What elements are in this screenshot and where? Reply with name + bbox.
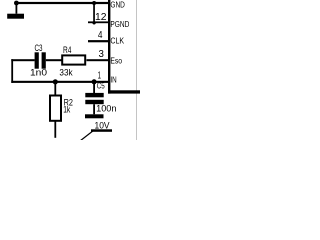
svg-text:3: 3	[99, 49, 105, 60]
svg-text:33k: 33k	[59, 67, 72, 78]
wire PGND pin	[88, 21, 108, 23]
svg-text:1k: 1k	[63, 105, 70, 116]
svg-text:4: 4	[98, 30, 103, 41]
svg-text:12: 12	[95, 12, 107, 23]
frame line	[136, 0, 138, 140]
wire CLK pin	[88, 40, 108, 42]
wire Eso pin	[87, 59, 109, 61]
svg-text:C5: C5	[97, 81, 105, 91]
svg-text:10V: 10V	[95, 120, 111, 131]
wire C3 left	[11, 59, 34, 61]
resistor R2	[50, 82, 61, 138]
node D	[92, 79, 97, 84]
node B	[92, 21, 95, 24]
svg-text:C3: C3	[35, 43, 43, 53]
svg-text:PGND: PGND	[110, 20, 129, 29]
svg-text:100n: 100n	[96, 103, 116, 114]
wire GND	[16, 2, 108, 4]
svg-text:GND: GND	[110, 0, 125, 9]
wire IN rail	[11, 81, 108, 83]
svg-text:Eso: Eso	[110, 56, 122, 65]
svg-text:1n0: 1n0	[30, 67, 47, 78]
resistor R4	[62, 55, 85, 64]
IC U1 box edge	[108, 0, 140, 94]
ground	[7, 1, 24, 19]
capacitor C3	[35, 52, 46, 68]
svg-text:R4: R4	[63, 45, 71, 56]
node C	[53, 79, 58, 84]
svg-text:CLK: CLK	[110, 37, 124, 46]
capacitor C5	[85, 82, 103, 114]
wire C3 to R4	[46, 59, 62, 61]
wire left drop	[11, 59, 13, 83]
ground (10V rail, slanted)	[80, 129, 112, 140]
ground (C5 bar)	[85, 114, 104, 118]
wire	[93, 3, 95, 23]
svg-text:IN: IN	[110, 76, 116, 85]
node A	[92, 1, 96, 5]
